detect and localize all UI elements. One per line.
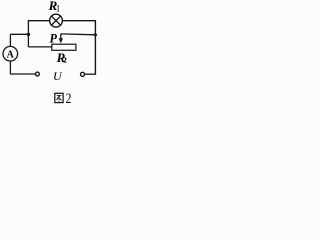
svg-text:2: 2	[63, 57, 67, 64]
svg-text:U: U	[53, 69, 63, 83]
svg-text:A: A	[7, 49, 15, 60]
svg-text:P: P	[50, 32, 58, 46]
svg-text:1: 1	[56, 4, 61, 14]
svg-text:2: 2	[66, 89, 72, 106]
